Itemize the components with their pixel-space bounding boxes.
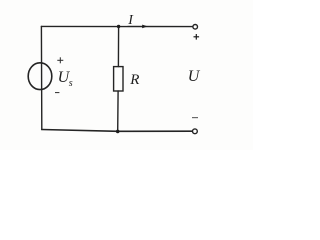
wire top [41,25,193,27]
terminal plus sign [194,34,200,40]
resistor R [114,67,123,91]
terminal top right [193,25,198,30]
wire bottom [42,130,193,132]
terminal bottom right [193,129,198,134]
svg-text:R: R [129,72,139,88]
source plus sign [57,57,63,63]
terminal minus sign [192,117,198,119]
source minus sign [55,92,59,94]
svg-text:U: U [188,68,201,85]
wire resistor bottom lead [117,91,119,131]
svg-text:I: I [127,13,134,28]
current arrow I [142,25,147,29]
node bottom junction [116,130,120,134]
wire resistor top lead [117,27,119,67]
wire left [40,26,42,129]
voltage source Us [28,63,52,90]
node top junction [117,25,120,28]
svg-text:s: s [69,78,73,89]
